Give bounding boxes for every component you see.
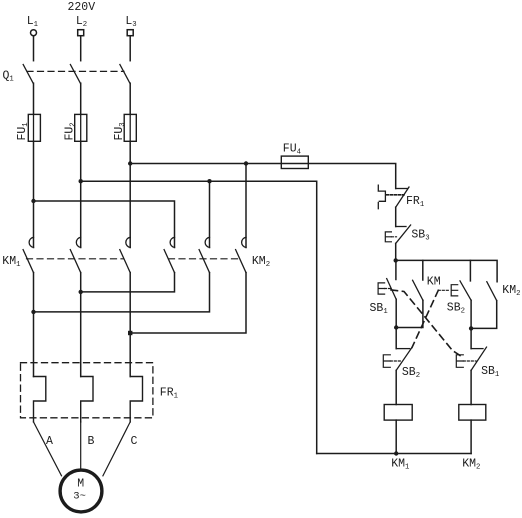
node junction col5 tap xyxy=(207,179,211,183)
wire phase B to motor xyxy=(80,422,82,469)
wire Q1 to FU1 xyxy=(33,83,35,114)
svg-text:KM2: KM2 xyxy=(252,255,270,269)
node junction L1 row xyxy=(31,199,35,203)
wire KM1 contact2 to heater 2 xyxy=(80,273,82,377)
contactor KM2 aux contact xyxy=(487,282,521,301)
node junction L2 row xyxy=(79,179,83,183)
wire FU1 down to KM1 contact 1 xyxy=(33,141,35,247)
terminal L3 xyxy=(125,15,136,36)
thermal relay FR1 box xyxy=(21,363,153,418)
node junction L3 row xyxy=(128,161,132,165)
wire L1 to Q1 xyxy=(33,36,35,61)
wire KM2 contact5 to phase A xyxy=(34,273,210,312)
breaker Q1 pole 3 xyxy=(120,65,130,84)
fuse FU3 xyxy=(113,114,136,141)
node junction phase B xyxy=(79,290,83,294)
wire KM2 contact4 to phase B xyxy=(81,273,175,292)
interlock SB2 NC contact xyxy=(383,347,420,380)
heater element 3 xyxy=(130,377,142,422)
fuse FU1 xyxy=(16,114,40,141)
node junction phase C xyxy=(128,331,132,335)
wire control bottom rail xyxy=(317,453,471,455)
breaker Q1 linkage dashed xyxy=(27,70,124,72)
wire Q1 to FU3 xyxy=(129,83,131,114)
contactor KM1 contact 2 xyxy=(70,237,80,272)
contactor KM2 contact 4 xyxy=(164,237,174,272)
svg-text:KM2: KM2 xyxy=(502,284,520,298)
wire FR to SB3 xyxy=(395,207,397,226)
node junction phase A xyxy=(31,310,35,314)
thermal relay FR1 NC contact xyxy=(378,185,425,209)
wire row L1 feed to KM2 contact 4 xyxy=(34,201,175,248)
svg-text:FU2: FU2 xyxy=(63,122,77,140)
wire KM1 contact1 to heater 1 xyxy=(33,273,35,377)
svg-text:SB2: SB2 xyxy=(447,302,465,316)
wire SB2 to right junction xyxy=(470,300,472,328)
node control top rail junction xyxy=(394,258,398,262)
start button SB1 NO contact xyxy=(370,260,397,316)
svg-text:3~: 3~ xyxy=(73,490,86,502)
svg-text:B: B xyxy=(88,435,95,448)
breaker Q1 pole 2 xyxy=(70,65,80,84)
svg-text:SB1: SB1 xyxy=(370,302,389,316)
svg-text:C: C xyxy=(131,435,138,448)
wire row L2 feed to control return xyxy=(81,181,317,453)
terminal L2 xyxy=(76,15,87,36)
contactor KM2 contact 5 xyxy=(199,237,209,272)
fuse FU4 xyxy=(281,142,308,168)
svg-text:SB1: SB1 xyxy=(481,365,500,379)
wire left junction to SB2 NC xyxy=(395,328,397,349)
contactor KM1 aux contact xyxy=(413,260,441,300)
contactor KM1 linkage dashed xyxy=(27,258,124,260)
svg-text:FR1: FR1 xyxy=(160,386,179,400)
wire coil KM1 to bottom rail xyxy=(395,420,397,453)
svg-text:KM2: KM2 xyxy=(462,457,480,471)
wire phase C to motor xyxy=(103,422,130,476)
wire SB2 NC to coil KM1 xyxy=(395,370,397,404)
wire FU2 down to KM1 contact 2 xyxy=(80,141,82,247)
coil KM1 xyxy=(384,405,412,421)
wire coil KM2 to bottom rail xyxy=(470,420,472,453)
svg-text:FR1: FR1 xyxy=(406,195,425,209)
wire col5 drop to KM2 contact 5 xyxy=(209,181,211,247)
wire L3 to Q1 xyxy=(129,36,131,61)
svg-text:KM1: KM1 xyxy=(2,255,21,269)
svg-text:SB2: SB2 xyxy=(402,366,420,380)
svg-text:A: A xyxy=(46,435,53,448)
node bottom rail junction xyxy=(394,451,398,455)
svg-text:FU4: FU4 xyxy=(283,142,302,156)
contactor KM2 linkage dashed xyxy=(169,258,242,260)
wire SB3 to rail node xyxy=(395,243,397,260)
motor M xyxy=(60,470,102,512)
terminal L1 xyxy=(27,15,39,36)
wire control top rail xyxy=(396,260,497,281)
wire right junction to SB1 NC xyxy=(470,328,472,348)
svg-text:M: M xyxy=(77,477,84,490)
wire KM1 contact3 to heater 3 xyxy=(129,273,131,377)
svg-text:KM1: KM1 xyxy=(391,457,410,471)
fuse FU2 xyxy=(63,114,86,141)
breaker Q1 pole 1 xyxy=(23,65,33,84)
node right branch junction xyxy=(469,326,473,330)
wire row L3 feed to FU4 and control xyxy=(130,163,281,165)
start button SB2 NO contact xyxy=(438,260,471,315)
svg-text:FU1: FU1 xyxy=(16,122,30,141)
wire col6 drop to KM2 contact 6 xyxy=(245,164,247,248)
node junction col6 tap xyxy=(244,161,248,165)
svg-text:L3: L3 xyxy=(125,15,136,29)
svg-text:220V: 220V xyxy=(68,1,96,14)
svg-text:SB3: SB3 xyxy=(411,228,429,242)
coil KM2 xyxy=(459,405,486,421)
node left branch junction xyxy=(394,325,398,329)
svg-text:L2: L2 xyxy=(76,15,87,29)
wire through FU4 to FR contact xyxy=(281,164,395,189)
contactor KM1 contact 1 xyxy=(23,237,33,272)
stop button SB3 NC contact xyxy=(385,225,429,243)
svg-text:KM: KM xyxy=(427,275,441,288)
heater element 2 xyxy=(81,377,93,422)
wire L2 to Q1 xyxy=(80,36,82,61)
wire SB1 to left junction xyxy=(395,299,397,327)
contactor KM1 contact 3 xyxy=(120,237,130,272)
svg-text:L1: L1 xyxy=(27,15,39,29)
svg-text:FU3: FU3 xyxy=(113,122,127,140)
mechanical link SB2 dashed xyxy=(412,290,438,347)
wire KM2 aux to right junction xyxy=(471,301,497,329)
wire Q1 to FU2 xyxy=(80,83,82,114)
wire KM1 aux to left junction xyxy=(396,300,423,327)
interlock SB1 NC contact xyxy=(456,347,500,379)
svg-text:Q1: Q1 xyxy=(3,70,15,84)
wire phase A to motor xyxy=(34,422,62,476)
contactor KM2 contact 6 xyxy=(236,237,246,272)
wire SB1 NC to coil KM2 xyxy=(470,370,472,404)
wire FU3 down to KM1 contact 3 xyxy=(129,141,131,247)
wire KM2 contact6 to phase C xyxy=(130,273,246,333)
mechanical link SB1 dashed xyxy=(391,290,460,356)
heater element 1 xyxy=(34,377,46,422)
